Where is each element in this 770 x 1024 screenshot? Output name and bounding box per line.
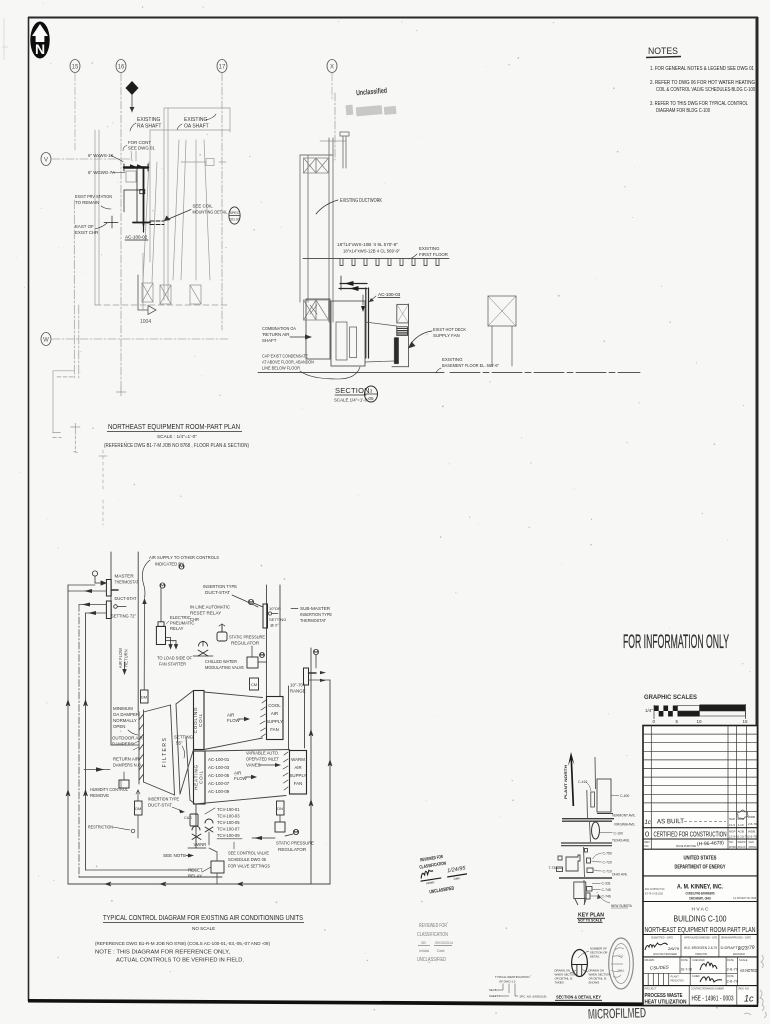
insertion duct-stat label lower: [148, 797, 185, 814]
svg-text:C-720: C-720: [603, 861, 612, 865]
air flow arrow in RA duct: [118, 648, 129, 675]
issue purpose header row: [645, 840, 757, 849]
svg-text:DUCT-STAT: DUCT-STAT: [148, 803, 172, 808]
svg-text:APPROVAL & DATE: APPROVAL & DATE: [738, 845, 746, 849]
master thermostat box: [106, 580, 111, 597]
svg-text:INSERTION TYPE: INSERTION TYPE: [300, 612, 332, 617]
svg-text:SUPPLY: SUPPLY: [266, 719, 283, 724]
svg-text:FOR CONT: FOR CONT: [128, 140, 151, 145]
svg-text:TCV-100-05: TCV-100-05: [217, 820, 240, 825]
svg-text:W.D. BROKEEN 2-8-79: W.D. BROKEEN 2-8-79: [684, 945, 718, 950]
svg-text:H5E - 14961 - 0003: H5E - 14961 - 0003: [692, 994, 734, 1003]
svg-text:OPEN: OPEN: [113, 724, 125, 729]
cap exist condensate note: [262, 354, 360, 380]
svg-text:AC-100-02: AC-100-02: [125, 235, 148, 240]
svg-text:09/10/2014: 09/10/2014: [435, 941, 453, 945]
section-detail key circle: [572, 950, 588, 977]
svg-text:ELECTRIC: ELECTRIC: [170, 615, 191, 620]
svg-text:RESET RELAY: RESET RELAY: [190, 611, 221, 616]
return air dampers label: [113, 757, 142, 768]
svg-text:SPC. NO. (MODULE): SPC. NO. (MODULE): [520, 995, 547, 999]
svg-text:(REFERENCE DWG B1-R-M JOB N: (REFERENCE DWG B1-R-M JOB NO 8768) (COIL…: [95, 941, 270, 947]
title block outer frame: [643, 726, 758, 1006]
existing ductwork label: [316, 198, 383, 214]
label AC-100-02: [125, 235, 148, 241]
relay leads down: [166, 638, 178, 649]
first floor sawtooth line: [303, 259, 449, 266]
svg-text:6" WGWG-7A: 6" WGWG-7A: [88, 170, 115, 175]
svg-text:C-710: C-710: [603, 870, 612, 874]
svg-text:BUILDING C-100: BUILDING C-100: [674, 915, 727, 924]
svg-text:VERMONT AVE.: VERMONT AVE.: [612, 814, 636, 818]
svg-text:12-9: 12-9: [729, 823, 735, 827]
see control valve note: [228, 842, 270, 869]
exist hot deck supply fan label: [408, 327, 466, 349]
plant north arrow: [564, 752, 575, 806]
svg-text:2-6-79: 2-6-79: [727, 979, 739, 984]
svg-text:TAKEN: TAKEN: [555, 981, 564, 985]
svg-text:15: 15: [743, 719, 749, 724]
svg-text:H V A C: H V A C: [692, 907, 709, 912]
grid line 16: [120, 73, 122, 392]
section centerline top: [320, 93, 346, 160]
svg-text:VANES: VANES: [246, 763, 261, 768]
svg-text:TCV-100-01: TCV-100-01: [217, 807, 240, 812]
svg-text:WARM: WARM: [291, 757, 305, 762]
building C-410 small: [578, 780, 595, 807]
svg-text:DFTSMN: DFTSMN: [729, 845, 736, 849]
svg-text:FOR VALVE SETTINGS: FOR VALVE SETTINGS: [228, 864, 270, 869]
shaft walls: [300, 132, 349, 322]
existing OA shaft label: [177, 114, 216, 130]
svg-text:PLANT NORTH: PLANT NORTH: [564, 764, 568, 799]
svg-text:DETAIL: DETAIL: [590, 955, 600, 959]
svg-text:16: 16: [118, 65, 125, 71]
duct below floor with arrows: [339, 276, 367, 290]
svg-text:NGP: NGP: [729, 830, 736, 834]
heating valve assembly: [188, 804, 213, 848]
label 6" WGWG-7A: [88, 170, 125, 175]
svg-text:DIAGRAM FOR BLDG C-100: DIAGRAM FOR BLDG C-100: [656, 108, 710, 114]
svg-text:55°: 55°: [176, 741, 183, 746]
leader from note: [142, 560, 150, 598]
svg-text:CONTRACT/DRAWING NUMBER: CONTRACT/DRAWING NUMBER: [691, 987, 724, 991]
svg-text:C-745: C-745: [602, 888, 611, 892]
right equipment box: [488, 296, 516, 366]
svg-text:CHK: CHK: [749, 840, 755, 844]
svg-text:AIR: AIR: [234, 771, 241, 776]
svg-text:CSL/DES: CSL/DES: [650, 965, 669, 971]
svg-text:DATE: DATE: [727, 958, 734, 962]
svg-text:AT ABOVE FLOOR, ABANDON: AT ABOVE FLOOR, ABANDON: [262, 360, 314, 365]
svg-text:AIR: AIR: [294, 765, 301, 770]
svg-text:FIRST FLOOR: FIRST FLOOR: [419, 252, 448, 257]
svg-text:SUBMITTED – DATE: SUBMITTED – DATE: [651, 936, 673, 940]
svg-text:EXIST CHR: EXIST CHR: [75, 230, 98, 235]
svg-text:COOL: COOL: [268, 703, 281, 708]
svg-text:SHAFT: SHAFT: [262, 338, 277, 343]
faint illegible stamp: [345, 101, 396, 118]
svg-text:AC-100-09: AC-100-09: [208, 789, 230, 794]
texas ave street: [561, 843, 612, 846]
svg-text:NO.: NO.: [729, 840, 734, 844]
hot deck fan unit: [365, 304, 409, 367]
svg-text:COIL: COIL: [198, 713, 203, 727]
svg-text:TYPICAL IDENTIFICATION: TYPICAL IDENTIFICATION: [495, 975, 529, 979]
svg-text:NO.: NO.: [645, 844, 650, 848]
svg-text:NO SCALE: NO SCALE: [192, 926, 215, 931]
typical identification label: [495, 975, 529, 984]
faint fold line top: [2, 18, 8, 60]
svg-text:BASEMENT FLOOR EL. 565'-6": BASEMENT FLOOR EL. 565'-6": [442, 363, 499, 368]
hatched wall boxes top: [304, 158, 329, 173]
svg-text:DRAWN: DRAWN: [645, 958, 655, 962]
svg-text:STATIC PRESSURE: STATIC PRESSURE: [229, 635, 265, 640]
grid line W horizontal: [52, 338, 230, 340]
svg-text:15: 15: [72, 65, 79, 71]
svg-text:hGP: hGP: [729, 817, 735, 821]
svg-text:VIRGINIA AVE.: VIRGINIA AVE.: [614, 823, 636, 827]
dashed stub below plan: [99, 450, 107, 525]
svg-text:MICROFILMED: MICROFILMED: [588, 1005, 646, 1023]
svg-text:C-746: C-746: [602, 895, 611, 899]
svg-text:OF DWG-1.0: OF DWG-1.0: [499, 980, 516, 984]
duct-stat box: [106, 601, 111, 619]
road vertical: [584, 757, 596, 903]
fan inlet vanes lower: [283, 752, 288, 790]
svg-text:RESTRICTION: RESTRICTION: [88, 825, 113, 830]
column bubble 15: [70, 60, 80, 73]
svg-text:A. M. KINNEY, INC.: A. M. KINNEY, INC.: [677, 884, 723, 891]
svg-text:HUMIDITY CONTROL: HUMIDITY CONTROL: [90, 787, 128, 792]
number of section label: [590, 947, 607, 959]
drawing taken label: [555, 969, 577, 985]
air line frame left outer: [67, 585, 69, 884]
svg-text:RA SHAFT: RA SHAFT: [137, 124, 161, 130]
svg-text:DUCT-STAT: DUCT-STAT: [205, 590, 230, 595]
PE seal stamp: [609, 938, 634, 989]
return air line w arrow: [84, 767, 110, 771]
svg-text:INSERTION TYPE: INSERTION TYPE: [148, 797, 179, 802]
svg-text:AIR SUPPLY TO OTHER CONTROLS: AIR SUPPLY TO OTHER CONTROLS: [149, 555, 219, 560]
svg-text:TCV-100-09: TCV-100-09: [217, 833, 240, 838]
DM box lower-left: [135, 790, 143, 838]
heating coil box: [194, 751, 206, 804]
svg-text:18"/14"xWS-10B '4 9L 570'-6": 18"/14"xWS-10B '4 9L 570'-6": [337, 242, 399, 247]
filter channel: [171, 704, 191, 800]
section marker diamond at line 16: [126, 81, 139, 112]
static pressure regulator lower: [252, 822, 299, 840]
column bubble 16: [116, 60, 126, 73]
spec bubble: [229, 207, 240, 224]
EP relay thermostat circle: [160, 583, 165, 622]
svg-text:FOR INFORMATION ONLY: FOR INFORMATION ONLY: [623, 632, 729, 653]
svg-text:REVIEWED FOR: REVIEWED FOR: [419, 923, 447, 929]
svg-text:OPERATOR: OPERATOR: [695, 952, 707, 956]
svg-text:AS NOTED: AS NOTED: [740, 968, 757, 974]
svg-text:AGB: AGB: [738, 830, 744, 834]
bottom band: [643, 985, 758, 987]
svg-text:SCALE : 1/4"=1'-0": SCALE : 1/4"=1'-0": [157, 434, 197, 439]
svg-text:EAST OF: EAST OF: [75, 224, 94, 229]
svg-text:2/23/79: 2/23/79: [737, 945, 755, 952]
grid line 15: [74, 73, 76, 150]
chief signature: [700, 977, 722, 982]
RA duct wall left: [110, 552, 112, 745]
svg-text:ARCHITECT/ENGINEER: ARCHITECT/ENGINEER: [653, 952, 677, 956]
building C-400: [597, 779, 629, 812]
column bubble W left: [41, 333, 51, 346]
svg-text:7961: 7961: [617, 969, 624, 973]
svg-text:NORTHEAST EQUIPMENT ROOM-PAR: NORTHEAST EQUIPMENT ROOM-PART PLAN: [108, 424, 240, 431]
svg-text:GRAPHIC SCALES: GRAPHIC SCALES: [644, 694, 697, 701]
north arrow symbol: [30, 22, 49, 59]
reviewed for classification stamp (inked, tilted): [417, 851, 470, 897]
svg-text:OPERATOR: OPERATOR: [738, 840, 746, 844]
variable inlet vanes label: [246, 751, 281, 768]
svg-text:EXISTING: EXISTING: [184, 117, 207, 123]
svg-text:1c: 1c: [645, 820, 651, 826]
duct dimension notes: [337, 242, 401, 254]
svg-text:A-K PROJECT NO. 8008: A-K PROJECT NO. 8008: [733, 896, 756, 900]
svg-text:FAN STARTER: FAN STARTER: [159, 662, 187, 667]
svg-text:PROJECT: PROJECT: [645, 987, 658, 991]
svg-text:SEE CONTROL VALVE: SEE CONTROL VALVE: [228, 851, 269, 856]
svg-text:EXISTING: EXISTING: [137, 117, 160, 123]
signature band 2: [643, 956, 758, 958]
coil list: [208, 757, 230, 794]
svg-text:ACTUAL CONTROLS TO BE VERIF: ACTUAL CONTROLS TO BE VERIFIED IN FIELD.: [116, 958, 244, 964]
label 6" WxWS-18: [88, 153, 123, 162]
svg-text:NOTE : THIS DIAGRAM FOR REF: NOTE : THIS DIAGRAM FOR REFERENCE ONLY,: [95, 950, 230, 956]
svg-text:SUPPLY FAN: SUPPLY FAN: [433, 333, 460, 338]
AC-100-03 label: [369, 292, 401, 302]
svg-text:2-6: 2-6: [619, 954, 624, 958]
svg-text:1. FOR GENERAL NOTES & LEGEND: 1. FOR GENERAL NOTES & LEGEND SEE DWG 01: [650, 66, 754, 72]
restriction label: [88, 825, 135, 833]
duct detail dark lines: [104, 164, 164, 232]
master tstat stem: [111, 589, 118, 591]
svg-text:SETTING 72°: SETTING 72°: [111, 614, 136, 619]
cooling coil box: [193, 691, 204, 750]
svg-text:EY-76-C-05-1156: EY-76-C-05-1156: [645, 892, 663, 896]
svg-text:EXIST PRV STATION: EXIST PRV STATION: [75, 194, 112, 199]
svg-text:TEXAS AVE.: TEXAS AVE.: [612, 839, 630, 843]
electric pneumatic relay box: [156, 626, 165, 644]
svg-text:NOT TO SCALE: NOT TO SCALE: [578, 919, 603, 923]
svg-text:SEE DWG 01: SEE DWG 01: [128, 146, 155, 151]
svg-text:DM: DM: [141, 695, 147, 700]
svg-text:'RETURN AIR: 'RETURN AIR: [262, 332, 289, 337]
svg-text:IN LINE AUTOMATIC: IN LINE AUTOMATIC: [190, 605, 231, 610]
svg-text:W: W: [43, 338, 49, 344]
svg-text:3. REFER TO THIS DWG FOR TYP: 3. REFER TO THIS DWG FOR TYPICAL CONTROL: [650, 101, 748, 107]
svg-text:OPERATED INLET: OPERATED INLET: [246, 757, 279, 762]
svg-text:TCV-100-03: TCV-100-03: [217, 814, 240, 819]
connections to air mains: [68, 585, 106, 613]
streets vermont virginia: [562, 814, 614, 822]
left wall faint outline: [53, 200, 126, 453]
TCV list: [205, 807, 242, 839]
svg-text:EXISTING: EXISTING: [442, 357, 463, 362]
grid line V horizontal: [52, 158, 130, 160]
svg-text:MAR: MAR: [738, 817, 746, 821]
svg-text:PROCESS WASTE: PROCESS WASTE: [645, 993, 683, 999]
svg-text:RESET: RESET: [188, 868, 203, 873]
svg-text:SB: SB: [421, 941, 426, 945]
bottom air main: [68, 883, 330, 885]
svg-text:C-410: C-410: [578, 780, 587, 784]
svg-text:EXISTING: EXISTING: [419, 246, 440, 251]
svg-text:SCALE 1/4"=1'-0": SCALE 1/4"=1'-0": [334, 398, 369, 403]
svg-text:05: 05: [368, 396, 374, 401]
signature band 1: [681, 935, 719, 957]
svg-text:DM: DM: [135, 806, 141, 811]
reset relay component: [217, 624, 227, 641]
plan shaft walls (faint): [95, 108, 230, 310]
faint margin scribbles right of border: [744, 955, 766, 1018]
svg-text:COIL & CONTROL VALVE SCHEDULE: COIL & CONTROL VALVE SCHEDULES-BLDG C-10…: [656, 87, 755, 93]
RA duct wall right: [137, 552, 139, 712]
svg-text:RELAY: RELAY: [188, 874, 202, 879]
svg-text:APPROVAL/RECOMMENDED – DATE: APPROVAL/RECOMMENDED – DATE: [684, 936, 717, 940]
svg-text:REGULATOR: REGULATOR: [231, 641, 260, 646]
duct-stat bulb symbol: [114, 605, 126, 609]
svg-text:101.02: 101.02: [229, 218, 240, 222]
svg-text:THERMOSTAT: THERMOSTAT: [115, 580, 139, 585]
label exist PRV station: [75, 194, 112, 209]
svg-text:N: N: [35, 41, 45, 57]
svg-text:X: X: [330, 65, 334, 71]
svg-text:SHEETS: SHEETS: [489, 994, 500, 998]
svg-text:ERDA/MGR: ERDA/MGR: [733, 952, 745, 956]
revision table grid: [643, 726, 758, 850]
ohio ave street: [559, 877, 612, 879]
checked signature: [700, 962, 717, 970]
svg-text:VARIABLE AUTO.: VARIABLE AUTO.: [246, 751, 279, 756]
svg-text:OA DAMPER: OA DAMPER: [113, 712, 139, 717]
svg-text:MASTER: MASTER: [115, 574, 135, 579]
svg-text:1-10-79: 1-10-79: [738, 835, 749, 839]
existing first floor label: [409, 246, 448, 259]
svg-text:@ 0°: @ 0°: [270, 623, 279, 628]
humidity control label: [90, 787, 128, 798]
svg-text:AS BUILT: AS BUILT: [657, 818, 684, 825]
cool supply riser walls: [266, 585, 268, 696]
svg-text:VWNR: VWNR: [194, 842, 207, 847]
svg-text:HEAT UTILIZATION: HEAT UTILIZATION: [645, 1000, 687, 1006]
svg-text:0: 0: [645, 830, 649, 839]
svg-text:LINE BELOW FLOOR: LINE BELOW FLOOR: [262, 366, 300, 371]
svg-text:10°-70°: 10°-70°: [290, 683, 305, 688]
svg-text:RANGE: RANGE: [290, 689, 306, 694]
svg-text:UNCLASSIFIED: UNCLASSIFIED: [417, 957, 446, 963]
reviewed for classification stamp (gray, 2014): [417, 923, 453, 963]
svg-text:AC-100-05: AC-100-05: [208, 773, 230, 778]
svg-text:C&S: C&S: [184, 816, 192, 820]
svg-text:NORMALLY: NORMALLY: [113, 718, 137, 723]
svg-text:1/4": 1/4": [645, 708, 653, 713]
air flow arrow upper: [227, 713, 250, 724]
svg-text:MOUNTING DETAIL: MOUNTING DETAIL: [193, 210, 228, 215]
svg-text:RELAY: RELAY: [170, 626, 184, 631]
transition dampers to filters: [111, 705, 175, 795]
svg-text:1-10: 1-10: [738, 823, 744, 827]
svg-text:THERMOSTAT: THERMOSTAT: [300, 618, 326, 623]
column bubble 17: [217, 60, 227, 73]
svg-text:AC-100-07: AC-100-07: [208, 781, 230, 786]
svg-text:DATE: DATE: [727, 974, 734, 978]
buildings middle cluster: [557, 849, 594, 873]
svg-text:CLASSIFICATION: CLASSIFICATION: [417, 932, 448, 938]
svg-text:FAN: FAN: [294, 781, 303, 786]
svg-text:AIR: AIR: [227, 713, 234, 718]
svg-text:10-7-78: 10-7-78: [681, 968, 693, 972]
svg-text:SPEC: SPEC: [230, 211, 240, 215]
svg-text:PLANT: PLANT: [671, 975, 680, 979]
hatched wall boxes mid: [304, 300, 329, 320]
svg-text:SCHEDULE DWG 06: SCHEDULE DWG 06: [228, 857, 267, 862]
label see coil mounting detail: [164, 204, 228, 222]
combination OA label: [262, 326, 312, 343]
signature 1 script: [645, 943, 668, 950]
svg-text:CINCINNATI, OHIO: CINCINNATI, OHIO: [689, 897, 711, 901]
match arrow 1004: [138, 275, 156, 325]
svg-text:AC-100-03: AC-100-03: [208, 765, 230, 770]
svg-text:EXISTING DUCTWORK: EXISTING DUCTWORK: [340, 198, 383, 204]
svg-text:STATIC PRESSURE: STATIC PRESSURE: [276, 841, 314, 846]
svg-text:RETURN AIR: RETURN AIR: [113, 757, 139, 762]
building C-100 oval: [592, 822, 623, 839]
svg-text:FAN: FAN: [270, 727, 279, 732]
svg-text:PRODUCTION: PRODUCTION: [671, 979, 684, 983]
svg-text:SCALE: SCALE: [739, 958, 748, 962]
see note label: [163, 853, 194, 858]
M symbol: [179, 564, 184, 569]
scale bar: [645, 704, 748, 724]
svg-text:DEPARTMENT OF ENERGY: DEPARTMENT OF ENERGY: [675, 865, 726, 871]
svg-text:AIR FLOW: AIR FLOW: [118, 648, 123, 668]
svg-text:CHIEF: CHIEF: [692, 974, 700, 978]
svg-text:CHECKED: CHECKED: [692, 958, 705, 962]
svg-text:OUTDOOR AIR: OUTDOOR AIR: [112, 736, 143, 741]
svg-text:NORTHEAST EQUIPMENT ROOM PART: NORTHEAST EQUIPMENT ROOM PART PLAN: [645, 925, 756, 934]
DM box upper: [141, 690, 149, 703]
svg-text:CHILLED WATER: CHILLED WATER: [205, 659, 238, 664]
svg-text:T-730: T-730: [549, 866, 558, 870]
svg-text:FILTERS: FILTERS: [162, 737, 168, 768]
svg-text:OHIO AVE.: OHIO AVE.: [612, 873, 628, 877]
svg-text:CHR: CHR: [190, 617, 199, 622]
air line frame left mid: [78, 605, 80, 878]
svg-text:DN: DN: [277, 806, 283, 811]
svg-text:C-100: C-100: [614, 832, 623, 836]
AHU damper section slats: [139, 710, 144, 784]
insertion duct-stat on riser: [248, 599, 263, 607]
svg-text:MINIMUM: MINIMUM: [113, 706, 133, 711]
svg-text:TCV-100-07: TCV-100-07: [217, 827, 240, 832]
svg-text:ISSUE PURPOSE: ISSUE PURPOSE: [676, 844, 696, 848]
column bubble X: [327, 60, 337, 73]
fan inlet vanes upper: [260, 700, 266, 737]
svg-text:1004: 1004: [140, 319, 151, 325]
right riser pair: [310, 648, 312, 884]
svg-text:TO REMAIN: TO REMAIN: [75, 200, 99, 205]
svg-text:17: 17: [219, 65, 226, 71]
svg-text:NEW SUBSTA: NEW SUBSTA: [611, 904, 633, 908]
svg-text:COMBINATION OA: COMBINATION OA: [262, 326, 296, 331]
svg-text:Date: Date: [437, 949, 445, 953]
